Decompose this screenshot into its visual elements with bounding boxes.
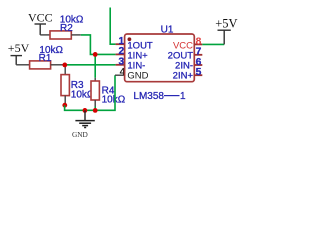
svg-text:2IN+: 2IN+ [173, 71, 194, 82]
wire R1 right lead [51, 64, 63, 66]
wire ground rail (green) [65, 75, 115, 110]
resistor R3 [61, 75, 69, 96]
wire node A to pin3 (green) [63, 64, 116, 66]
pin stub 1 [116, 43, 125, 45]
wire R2 to node (green) [81, 35, 95, 55]
svg-text:GND: GND [72, 130, 88, 139]
node B junction dot [93, 52, 98, 57]
U1 pin-1 marker dot [127, 37, 131, 41]
wire pin1 net (green, from top) [110, 8, 115, 45]
wire R2 right lead [71, 34, 81, 36]
svg-text:R1: R1 [39, 53, 52, 64]
resistor R4 [91, 81, 99, 100]
wire node B to pin2 (green) [95, 53, 115, 55]
svg-text:+5V: +5V [215, 16, 237, 30]
svg-text:1: 1 [180, 91, 186, 102]
pin stub 6 [194, 64, 202, 66]
wire R4 top lead [94, 78, 96, 81]
power symbol +5V (left) [11, 56, 23, 65]
node A junction dot [62, 63, 67, 68]
svg-text:LM358: LM358 [133, 91, 164, 102]
wire R3 top lead [64, 65, 66, 75]
svg-text:GND: GND [127, 71, 148, 82]
svg-text:R2: R2 [60, 23, 73, 34]
svg-text:2: 2 [118, 46, 124, 57]
wire R4 bottom lead [94, 100, 96, 107]
svg-text:+5V: +5V [8, 41, 30, 55]
node C junction dot (R3 bottom) [62, 103, 67, 108]
svg-text:3: 3 [118, 57, 124, 68]
power symbol VCC [35, 24, 47, 35]
ground [75, 110, 94, 127]
svg-text:VCC: VCC [28, 11, 53, 25]
pin stub 2 [116, 53, 125, 55]
op-amp U1 body [125, 34, 195, 82]
pin stub 3 [116, 64, 125, 66]
wire pin8 to +5V (green) [202, 43, 224, 45]
svg-text:5: 5 [196, 67, 202, 78]
pin stub 7 [194, 54, 202, 56]
pin stub 8 [194, 43, 202, 45]
wire R3 bottom lead [64, 96, 66, 105]
resistor R1 [30, 61, 51, 69]
power symbol +5V (right) [218, 30, 231, 44]
wire +5V to R1 [16, 64, 29, 66]
svg-text:10kΩ: 10kΩ [102, 95, 126, 106]
node E junction dot (R4 bottom) [93, 108, 98, 113]
resistor R2 [50, 31, 71, 39]
wire VCC to R2 [40, 34, 50, 36]
pin stub 4 (GND pin, dark) [115, 74, 125, 76]
node D junction dot (GND stem) [83, 108, 88, 113]
wire node B down to R4 (green) [94, 54, 96, 77]
svg-text:U1: U1 [161, 25, 174, 36]
pin stub 5 [194, 74, 202, 76]
